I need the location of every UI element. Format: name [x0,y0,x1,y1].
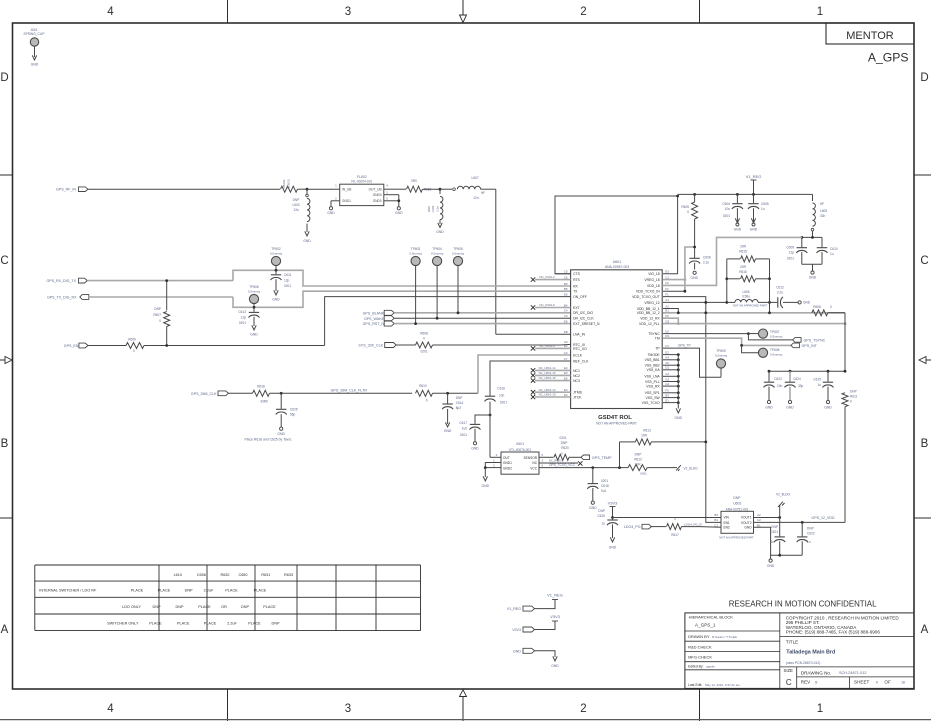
zone label top 2 [580,6,586,18]
title drawing no [801,671,867,676]
confidential banner [729,600,877,609]
svg-text:DR_I2C_DIO: DR_I2C_DIO [573,311,593,315]
ground C624 [786,400,794,409]
no-connect NC_U601-13 [531,388,571,395]
connector J601 pad [30,38,38,46]
wire TSYNC to port [748,334,792,340]
capacitor C609 C610 pair [800,236,822,247]
ic U601 body [571,270,663,409]
port V3V3 bottom [512,627,534,632]
wire R611 down [844,407,846,523]
svg-text:V3V3: V3V3 [512,628,521,632]
svg-text:JTCK: JTCK [573,395,582,399]
svg-text:DNP: DNP [456,396,463,400]
svg-text:EXT: EXT [573,306,580,310]
svg-text:C621: C621 [770,530,778,534]
svg-text:D: D [920,72,928,84]
svg-text:2.2uF: 2.2uF [227,621,237,625]
svg-text:0u1: 0u1 [601,489,607,493]
svg-text:R632: R632 [220,573,229,577]
svg-text:G4: G4 [665,382,669,386]
svg-text:OUT_UB: OUT_UB [369,187,382,191]
svg-text:C605: C605 [761,202,769,206]
zone tick bottom 4/3 [227,689,229,721]
wire LDO4_PG a [652,526,667,528]
svg-text:18: 18 [901,681,905,685]
svg-text:DNP: DNP [271,621,279,625]
svg-text:C620: C620 [597,514,605,518]
svg-text:2.2u: 2.2u [703,261,709,265]
ground C614 [444,422,452,432]
zone label left D [0,72,8,84]
wire RX net route [233,270,571,286]
svg-text:NC1: NC1 [573,369,580,373]
wire 26M c [433,392,479,395]
zone tick top 4/3 [227,0,229,23]
svg-text:0201: 0201 [239,321,246,325]
svg-text:REF_CLK: REF_CLK [573,359,589,363]
svg-text:NC_U601-9: NC_U601-9 [539,344,555,348]
svg-text:20R: 20R [740,245,747,249]
svg-text:R615: R615 [739,250,747,254]
wire TP602 down [275,266,278,272]
wire TP608 stub [742,345,759,352]
wire node to FL602 [307,188,334,190]
options table grid [35,565,421,631]
svg-text:SWITCHER ONLY: SWITCHER ONLY [107,621,139,625]
wire GPS_WAKE [394,317,571,319]
svg-text:33p: 33p [798,384,804,388]
svg-text:GND: GND [609,546,617,550]
capacitor C613 [238,307,259,325]
title TITLE [786,639,799,644]
svg-text:VSS_BB2: VSS_BB2 [645,364,660,368]
node RF1 [306,188,309,191]
svg-text:GND: GND [734,228,742,232]
svg-text:GPS_RST_N: GPS_RST_N [363,322,385,326]
svg-text:NC_U601-13: NC_U601-13 [539,388,556,392]
port SYS_32K_CLK [358,343,396,348]
svg-text:U602: U602 [733,502,741,506]
svg-text:ECLK: ECLK [573,353,583,357]
ground FL602 gnd0 [395,207,403,215]
ground C605 [750,218,758,231]
ferrite bead FB602 [281,179,298,192]
resistor R608 [416,331,433,353]
svg-text:TITLE: TITLE [786,639,799,644]
svg-text:rgaulin: rgaulin [706,664,715,668]
zone label left A [1,624,9,636]
svg-text:GND: GND [277,432,285,436]
svg-text:A6: A6 [665,361,669,365]
wire 26M a [229,392,253,394]
svg-text:PHONE: (519) 888-7465, FAX (51: PHONE: (519) 888-7465, FAX (519) 888-690… [786,630,881,635]
wire C611 gnd [275,279,277,291]
svg-text:0.56u: 0.56u [742,295,750,299]
svg-text:LNA_IN: LNA_IN [573,333,585,337]
port LDO4_PG [624,524,652,529]
svg-text:SYS_32K_CLK: SYS_32K_CLK [358,344,383,348]
svg-text:C1: C1 [714,523,718,527]
filter FL602 labels [351,175,372,184]
svg-text:56p: 56p [290,412,296,416]
port GPS_TSYNC [793,338,826,343]
wire X601 VCC [539,466,628,469]
zone label bottom 1 [817,703,823,715]
svg-text:A4: A4 [665,356,669,360]
svg-text:GND: GND [809,276,817,280]
svg-text:NC_U601-15: NC_U601-15 [539,371,556,375]
svg-text:NC: NC [532,461,537,465]
svg-text:43R0: 43R0 [260,399,268,403]
svg-text:SIZE: SIZE [784,668,794,673]
ground C617 [471,442,479,451]
wire R613 to VDD [651,441,707,444]
svg-text:C1: C1 [665,275,669,279]
svg-text:C650: C650 [238,573,247,577]
resistor R613 [635,428,651,445]
zone tick top 2/1 [699,0,701,23]
svg-text:G2: G2 [665,377,669,381]
svg-text:G3: G3 [665,319,669,323]
svg-text:PLACE: PLACE [225,589,238,593]
svg-text:C612: C612 [776,286,784,290]
wire GPS_TP run [663,348,721,377]
wire ECLK riser [478,355,571,393]
zone label right D [920,72,928,84]
svg-text:GND0: GND0 [373,193,382,197]
svg-text:13n: 13n [293,208,299,212]
capacitor C617 [459,415,490,437]
svg-text:GND: GND [765,406,773,410]
zone label right A [921,624,929,636]
svg-text:Talladega Main Brd: Talladega Main Brd [786,650,835,656]
svg-text:VCC: VCC [530,466,537,470]
svg-text:R618: R618 [257,384,265,388]
svg-text:DNP: DNP [185,589,193,593]
title size [784,668,794,687]
svg-text:C623: C623 [774,377,782,381]
svg-text:2.2uF: 2.2uF [204,589,214,593]
wire X601 NC [539,459,583,466]
svg-text:EXT_SRESET_N: EXT_SRESET_N [573,322,600,326]
title drawn by [688,634,737,639]
svg-text:D: D [0,72,8,84]
svg-text:6: 6 [876,681,878,685]
svg-text:C: C [920,255,928,267]
svg-text:0201: 0201 [601,479,608,483]
svg-text:C622: C622 [807,532,815,536]
wire V3V3 bottom [535,621,556,630]
svg-text:C4: C4 [564,309,568,313]
wire FL602 gnd0 join [397,195,400,207]
svg-text:B1: B1 [714,518,718,522]
svg-text:GND: GND [436,230,444,234]
svg-text:U601: U601 [613,260,622,264]
zone label top 1 [817,6,823,18]
svg-text:PLACE: PLACE [254,589,267,593]
title rd check [688,644,712,649]
ground C608 [691,271,699,280]
svg-text:0: 0 [426,399,428,403]
no-connect NC_U601-16 [531,376,571,383]
svg-text:VDD_TCXO_OUT: VDD_TCXO_OUT [632,295,660,299]
svg-text:R620: R620 [561,446,569,450]
svg-text:R.Gaulin / T.Trujillo: R.Gaulin / T.Trujillo [712,635,738,639]
capacitor C604 [722,194,743,222]
capacitor C624 [785,371,804,400]
svg-text:R&D CHECK: R&D CHECK [688,644,712,649]
zone tick right B/A [914,517,931,519]
port GPS_RX_DIG_TX [46,278,87,283]
svg-text:FB602: FB602 [282,179,286,188]
wire cap rail [768,370,847,373]
svg-text:ANA-00967-003: ANA-00967-003 [605,265,629,269]
svg-text:D5: D5 [564,292,568,296]
svg-text:GND1: GND1 [342,199,351,203]
svg-text:E1: E1 [665,398,669,402]
zone label right C [920,255,928,267]
svg-text:2: 2 [580,703,586,715]
svg-text:L603: L603 [292,203,299,207]
resistor R619 [393,179,432,192]
svg-text:0: 0 [830,305,832,309]
zone label left B [1,438,9,450]
capacitor C616 [485,387,508,405]
title copyright [786,615,900,634]
svg-text:C656: C656 [197,573,206,577]
oscillator X601 labels [509,442,531,452]
title right col lines [780,637,914,689]
svg-text:EN2: EN2 [724,526,730,530]
svg-text:GPS_RF_IN: GPS_RF_IN [56,188,76,192]
ic U601 left pin names [564,270,600,400]
svg-text:0: 0 [133,349,135,353]
title last edit [688,683,740,687]
svg-text:L607: L607 [471,176,478,180]
svg-text:R605: R605 [681,205,689,209]
svg-text:20R: 20R [740,265,747,269]
svg-text:A2: A2 [757,513,761,517]
svg-text:V1_REG: V1_REG [746,174,762,179]
svg-text:E6: E6 [564,376,568,380]
capacitor C620 DNP [597,509,618,538]
wire TM run [663,338,791,347]
svg-text:F1: F1 [665,292,669,296]
svg-text:DNP: DNP [241,605,249,609]
svg-text:GPS_EN: GPS_EN [64,344,79,348]
svg-text:DNP: DNP [850,389,857,393]
svg-text:DNP: DNP [733,496,741,500]
svg-text:1u: 1u [830,252,834,256]
svg-text:C7: C7 [564,357,568,361]
svg-text:DNP: DNP [561,441,568,445]
svg-text:A_GPS_1: A_GPS_1 [695,622,716,627]
svg-text:SHEET: SHEET [854,680,870,685]
wire C614 gnd [447,409,449,424]
no-connect NC_U601-15 [531,371,571,378]
svg-text:0: 0 [687,210,689,214]
svg-text:DNP: DNP [598,509,605,513]
ground J601 [31,55,39,66]
svg-text:GND: GND [31,63,39,67]
svg-text:B3: B3 [665,393,669,397]
svg-text:GPS_BLANK: GPS_BLANK [363,311,385,315]
resistor R610 [416,384,433,402]
svg-text:VSS_SW: VSS_SW [646,396,661,400]
zone arrow left center [0,357,12,364]
svg-text:0.5mmsq: 0.5mmsq [770,353,783,357]
svg-text:RX: RX [573,284,578,288]
svg-text:JTMS: JTMS [573,391,583,395]
port GPS_TEMP [581,455,612,460]
capacitor C615 [813,371,833,400]
svg-text:C5: C5 [564,270,568,274]
zone tick bottom 2/1 [699,689,701,721]
svg-text:0.5mmsq: 0.5mmsq [409,251,422,255]
svg-text:10n: 10n [499,394,505,398]
svg-text:TM: TM [655,337,660,341]
svg-text:L606: L606 [742,290,749,294]
svg-text:0.5mmsq: 0.5mmsq [431,251,444,255]
connector J601 label [23,28,44,36]
svg-text:DRAWING No.: DRAWING No. [801,671,831,676]
power V3V3 node [608,501,619,519]
svg-text:1u0: 1u0 [462,427,468,431]
svg-text:D6: D6 [564,319,568,323]
wire V3V3 to VIN [613,517,722,519]
svg-text:E3: E3 [665,270,669,274]
wire VDD_12_PLL run [663,322,847,325]
wire VIO_18 riser [663,195,679,274]
ground L603 [303,231,311,243]
zone label bottom 3 [345,703,351,715]
svg-text:F3: F3 [665,389,669,393]
svg-text:VREG_18: VREG_18 [644,278,659,282]
svg-text:EN1: EN1 [724,521,730,525]
wire riser to LNA_IN [496,333,571,335]
title hierarchical block [689,615,734,628]
pin stub CTS [555,273,571,275]
capacitor C614 DNP [442,393,463,410]
svg-text:A_GPS: A_GPS [868,50,909,64]
svg-text:D8: D8 [564,330,568,334]
svg-text:12p: 12p [789,251,795,255]
wire X601 OUT [490,456,501,458]
filter FL602 pin2 GND1 [331,196,351,203]
oscillator X601 right pins [524,453,544,470]
ic U602 pins [714,513,761,530]
resistor R618 [253,384,270,403]
note place R618 [245,437,293,441]
svg-text:GND: GND [272,298,280,302]
svg-text:V2_8LDO: V2_8LDO [776,493,791,497]
port GPS_26M_CLK [191,391,229,396]
svg-text:V2_8LDO: V2_8LDO [684,466,699,470]
svg-text:E3: E3 [564,388,568,392]
svg-text:REV: REV [801,680,811,685]
wire C617 gnd [474,429,476,442]
wire L604 to gnd [439,220,441,224]
svg-text:B6: B6 [564,282,568,286]
svg-text:E2: E2 [665,350,669,354]
net label GPS_26M_CLK_FLTR [331,388,368,392]
svg-text:0: 0 [674,517,676,521]
wire FB602 to node [298,188,308,190]
inductor L603 DNP [292,189,309,221]
power V1_REG top [746,174,762,194]
capacitor C621 DNP [770,518,785,556]
svg-text:C609: C609 [786,246,794,250]
wire VCC to R613 [620,442,636,468]
wire LDO4_PG b [682,526,722,529]
wire X601 GND pins [484,463,501,478]
svg-text:GND: GND [589,506,597,510]
svg-text:GND: GND [444,429,452,433]
node RF2 [439,188,442,191]
wire C625 gnd [280,414,282,427]
svg-text:PLACE: PLACE [158,589,171,593]
wire 26M b [270,392,413,395]
svg-text:BLM15: BLM15 [287,179,291,189]
title block left col lines [685,613,780,689]
svg-text:GND: GND [327,211,335,215]
svg-text:C2: C2 [564,351,568,355]
inductor L605 [811,194,827,231]
no-connect NC_U601-6 [531,303,571,310]
svg-text:0201: 0201 [787,257,794,261]
svg-text:C604: C604 [722,202,730,206]
svg-text:B4: B4 [564,303,568,307]
svg-text:GPS_TEMP: GPS_TEMP [592,456,612,460]
net stub V2_8LDO [776,493,791,518]
svg-text:33n: 33n [820,214,826,218]
svg-text:0.5mmsq: 0.5mmsq [248,289,261,293]
svg-text:C610: C610 [830,247,838,251]
port GND bottom [513,648,535,653]
svg-text:G1: G1 [665,372,669,376]
svg-text:OF: OF [884,680,891,685]
svg-text:VSS_TCXO: VSS_TCXO [642,401,660,405]
svg-text:C615: C615 [813,378,821,382]
svg-text:D3: D3 [665,334,669,338]
port GPS_BLANK [363,310,395,315]
svg-text:0R0: 0R0 [411,179,417,183]
port GPS_TX_DIG_RX [47,295,89,300]
wire X10 b [433,343,572,346]
svg-text:OR: OR [221,605,227,609]
svg-text:SCH-24871-012: SCH-24871-012 [839,671,866,675]
wire GND bottom [535,651,556,657]
ground C612 [798,301,811,305]
title edited by [688,664,715,668]
ic U602 note [719,536,754,540]
ground C604 [734,218,742,231]
svg-text:CTS: CTS [573,272,581,276]
ground C625 [277,427,285,436]
svg-text:V3V3: V3V3 [608,501,619,506]
svg-text:VSS_RX: VSS_RX [646,385,660,389]
capacitor C625 [276,393,298,416]
svg-text:TP603: TP603 [411,247,421,251]
filter FL602 pin5 GND0 [373,197,399,204]
wire GPS_RF_IN to FB602 [88,188,280,190]
svg-text:TP609: TP609 [716,349,726,353]
title board name [786,650,835,656]
wire TP606 down [253,304,256,309]
port GPS_EN [64,343,88,348]
svg-text:TP602: TP602 [271,247,281,251]
